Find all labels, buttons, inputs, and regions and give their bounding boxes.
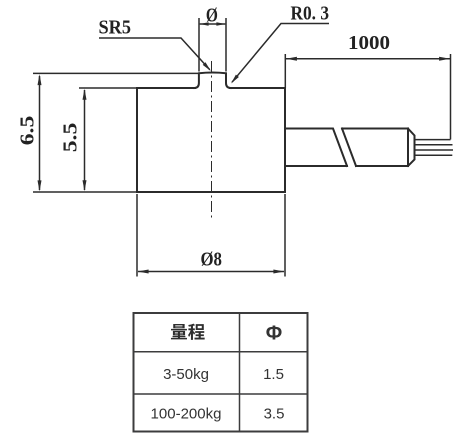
svg-text:3.5: 3.5	[264, 406, 285, 423]
svg-text:R0. 3: R0. 3	[291, 3, 330, 25]
svg-text:100-200kg: 100-200kg	[151, 405, 222, 422]
svg-text:6.5: 6.5	[17, 116, 39, 146]
svg-text:SR5: SR5	[99, 17, 132, 39]
svg-text:3-50kg: 3-50kg	[163, 366, 209, 383]
svg-text:Ø: Ø	[206, 5, 218, 27]
svg-text:1000: 1000	[348, 32, 390, 54]
svg-text:5.5: 5.5	[60, 123, 82, 153]
svg-text:1.5: 1.5	[263, 366, 284, 383]
svg-text:Φ: Φ	[266, 322, 282, 344]
svg-text:Ø8: Ø8	[200, 248, 222, 270]
